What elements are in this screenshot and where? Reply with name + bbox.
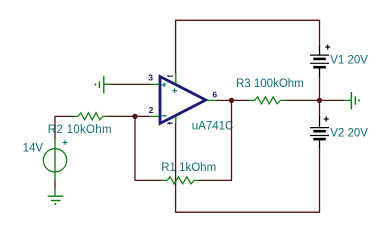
ground left (at pin 3) — [94, 76, 111, 94]
svg-text:V1 20V: V1 20V — [330, 55, 368, 67]
plate short thick — [313, 130, 326, 133]
plus mark input — [162, 83, 167, 88]
pin 2 lead — [150, 115, 160, 117]
bottom pin — [54, 188, 56, 196]
svg-text:V2 20V: V2 20V — [330, 127, 368, 139]
wire feedback riser output node down to R1 — [199, 100, 232, 180]
triangle body — [160, 77, 206, 124]
resistor R3 — [249, 97, 287, 104]
battery V2 — [310, 117, 329, 149]
bottom pin — [319, 69, 321, 77]
wire pin3 ground to op-amp — [104, 83, 150, 85]
top pin — [319, 117, 321, 127]
wire left riser corner down to source — [54, 116, 56, 139]
top hook mark — [168, 75, 174, 77]
svg-text:uA741C: uA741C — [192, 120, 234, 132]
wire R3 to right node — [286, 99, 320, 101]
wire output node to R3 — [232, 99, 250, 101]
wire R1 left to riser up to pin2 junction — [135, 116, 163, 180]
op-amp U1 — [150, 73, 217, 125]
svg-text:R2 10kOhm: R2 10kOhm — [48, 124, 112, 136]
minus mark input — [162, 115, 167, 117]
plate long — [310, 135, 329, 137]
plate short thick — [313, 66, 326, 69]
wire pin6 to output node — [216, 99, 232, 101]
node at output — [229, 98, 234, 103]
svg-text:14V: 14V — [23, 142, 44, 154]
wire output node to right ground — [320, 99, 345, 101]
ground bottom (below source) — [48, 196, 64, 205]
wire source bottom to ground — [54, 181, 56, 189]
plus mark supply — [172, 88, 177, 93]
svg-text:R1 1kOhm: R1 1kOhm — [161, 162, 216, 174]
resistor R2 — [73, 113, 108, 120]
plate long — [310, 62, 329, 64]
circle — [43, 149, 66, 172]
bottom arrow mark — [170, 122, 173, 124]
node at pin2 junction — [132, 114, 137, 119]
svg-text:3: 3 — [148, 73, 153, 83]
plate long — [310, 54, 329, 56]
bottom pin — [319, 140, 321, 148]
pin 6 lead — [207, 99, 217, 101]
battery V1 — [310, 45, 330, 77]
pin 7 lead (V+) — [175, 73, 177, 84]
svg-text:6: 6 — [212, 89, 217, 99]
wire V1 bottom to output node — [319, 76, 321, 100]
ground right (at output node) — [344, 92, 360, 109]
plus mark — [325, 45, 330, 50]
pin 4 lead (V-) — [175, 117, 177, 124]
plate long — [310, 127, 329, 129]
top pin — [319, 47, 321, 55]
wire top rail from op-amp V+ to V1 — [176, 20, 320, 73]
plus mark — [324, 117, 329, 122]
source V3 14V — [43, 138, 67, 196]
svg-text:R3 100kOhm: R3 100kOhm — [236, 78, 304, 90]
wire output node down to V2 — [319, 100, 321, 117]
pin 3 lead — [150, 83, 160, 85]
plate short thick — [313, 138, 326, 141]
wire R2 row: left corner to R2, R2 to junction, junction to pin2 — [55, 115, 150, 117]
resistor R1 — [162, 177, 199, 184]
plus mark — [63, 140, 68, 145]
plate short thick — [313, 58, 326, 61]
vertical line through — [54, 138, 56, 181]
wire V2 bottom to bottom rail to op-amp V- — [176, 123, 320, 212]
svg-text:2: 2 — [149, 105, 154, 115]
node at right rail — [317, 98, 322, 103]
